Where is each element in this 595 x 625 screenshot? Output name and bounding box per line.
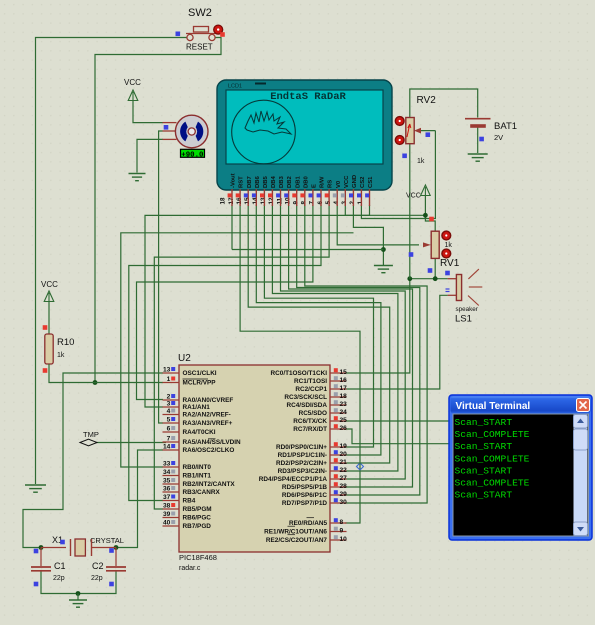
svg-text:RB3/CANRX: RB3/CANRX bbox=[183, 489, 221, 496]
wire LCD DB6 (pin15) to U2 RD6 bbox=[256, 205, 381, 455]
svg-text:RB5/PGM: RB5/PGM bbox=[183, 506, 212, 513]
LCD radar scribble trace bbox=[245, 111, 291, 134]
svg-text:U2: U2 bbox=[178, 353, 191, 364]
svg-text:VCC: VCC bbox=[406, 193, 421, 200]
svg-text:CS1: CS1 bbox=[368, 176, 374, 188]
svg-text:DB5: DB5 bbox=[263, 175, 269, 188]
svg-text:RC2/CCP1: RC2/CCP1 bbox=[295, 386, 327, 393]
svg-text:Scan_START: Scan_START bbox=[455, 490, 513, 501]
svg-text:Scan_COMPLETE: Scan_COMPLETE bbox=[455, 453, 530, 464]
svg-text:34: 34 bbox=[163, 469, 171, 476]
wire LCD CS1 (pin1) to U2 pin3 RA1 bbox=[145, 205, 370, 407]
svg-text:10: 10 bbox=[340, 536, 348, 543]
svg-text:21: 21 bbox=[340, 459, 348, 466]
wire RB0 net: fan line and column to U2 pin33 bbox=[121, 233, 354, 467]
capacitor C1 22p bbox=[31, 549, 66, 587]
svg-text:BAT1: BAT1 bbox=[494, 121, 517, 132]
svg-text:Scan_COMPLETE: Scan_COMPLETE bbox=[455, 478, 530, 489]
junction RV1 bottom / speaker rail bbox=[433, 276, 438, 281]
svg-text:RESET: RESET bbox=[186, 43, 213, 52]
svg-text:1k: 1k bbox=[417, 158, 425, 165]
svg-text:OSC1/CLKI: OSC1/CLKI bbox=[183, 370, 217, 377]
svg-text:C1: C1 bbox=[54, 561, 66, 571]
svg-text:MCLR/VPP: MCLR/VPP bbox=[183, 380, 217, 387]
junction capacitor ground rail bbox=[76, 591, 81, 596]
svg-text:6: 6 bbox=[167, 426, 171, 433]
svg-text:27: 27 bbox=[340, 475, 348, 482]
svg-text:RB2/INT2/CANTX: RB2/INT2/CANTX bbox=[183, 481, 236, 488]
svg-text:RA6/OSC2/CLKO: RA6/OSC2/CLKO bbox=[183, 447, 235, 454]
svg-text:VCC: VCC bbox=[41, 280, 58, 289]
svg-text:+90.0: +90.0 bbox=[181, 151, 204, 159]
svg-text:GND: GND bbox=[352, 175, 358, 188]
wire U2 pin15 RC0 to speaker rail bbox=[345, 279, 410, 373]
LCD pin stubs and numbers bbox=[220, 189, 370, 206]
svg-text:RB4: RB4 bbox=[183, 498, 196, 505]
wire LCD -Vout (pin18) drop bbox=[231, 205, 233, 250]
svg-text:13: 13 bbox=[260, 197, 267, 205]
svg-text:RD7/PSP7/P1D: RD7/PSP7/P1D bbox=[282, 500, 327, 507]
wire LCD VCC (pin4) to VCC junction above RV1 bbox=[345, 205, 425, 215]
junction speaker rail left bbox=[407, 276, 412, 281]
U2 left pins (numbers, squares, stubs, labels) bbox=[163, 367, 242, 531]
svg-text:C2: C2 bbox=[92, 561, 104, 571]
RV2 wiper arrowhead bbox=[414, 128, 421, 134]
svg-text:1k: 1k bbox=[445, 242, 453, 249]
svg-text:RE2/CS/C2OUT/AN7: RE2/CS/C2OUT/AN7 bbox=[266, 537, 328, 544]
virtual terminal text lines bbox=[455, 417, 530, 501]
wire servo signal to U2 pin5 RA3 (column x=158.6) bbox=[159, 131, 163, 423]
microcontroller U2 PIC18F458 bbox=[178, 353, 330, 572]
wire speaker rail bbox=[410, 278, 448, 280]
junction VCC/RV1 bbox=[423, 213, 428, 218]
RV1 wiper arrowhead bbox=[423, 242, 431, 247]
svg-text:20: 20 bbox=[340, 451, 348, 458]
wire OSC2: U2 pin14 to crystal right bbox=[117, 450, 163, 548]
svg-text:RA3/AN3/VREF+: RA3/AN3/VREF+ bbox=[183, 420, 233, 427]
svg-text:16: 16 bbox=[236, 197, 243, 205]
U2 right pins (numbers, squares, stubs, labels) bbox=[259, 368, 347, 544]
wire LCD DB7 (pin16) to U2 RD7 bbox=[248, 205, 390, 463]
svg-text:39: 39 bbox=[163, 511, 171, 518]
svg-text:RD1/PSP1/C1IN-: RD1/PSP1/C1IN- bbox=[278, 452, 327, 459]
svg-text:RE1/WR/C1OUT/AN6: RE1/WR/C1OUT/AN6 bbox=[264, 529, 327, 536]
junction crystal left node bbox=[39, 545, 44, 550]
wire R10 bottom to U2 pin1 MCLR bbox=[49, 374, 163, 383]
svg-text:E: E bbox=[312, 184, 318, 188]
svg-text:24: 24 bbox=[340, 409, 348, 416]
wire servo ground lead bbox=[137, 139, 163, 172]
switch SW2 (RESET push button) bbox=[176, 7, 225, 52]
svg-text:1k: 1k bbox=[57, 352, 65, 359]
wire LCD E (pin8) to U2 pin2 RA0 bbox=[137, 205, 313, 400]
svg-text:CS2: CS2 bbox=[360, 176, 366, 188]
svg-text:RB6/PGC: RB6/PGC bbox=[183, 515, 212, 522]
voltage probe marker on RST column bbox=[357, 463, 364, 470]
power VCC (RV1) bbox=[406, 185, 430, 200]
svg-text:SW2: SW2 bbox=[188, 7, 212, 19]
svg-text:RA1/AN1: RA1/AN1 bbox=[183, 404, 211, 411]
LCD display LCD1 (graphical 128x64) bbox=[217, 80, 392, 190]
svg-text:RC4/SDI/SDA: RC4/SDI/SDA bbox=[287, 402, 328, 409]
wire SW2 right terminal to MCLR column (x=95) bbox=[95, 38, 221, 383]
svg-text:TMP: TMP bbox=[83, 430, 99, 439]
svg-text:RV2: RV2 bbox=[417, 95, 437, 106]
svg-text:speaker: speaker bbox=[456, 306, 478, 313]
wire LCD DB2 (pin11) to U2 RD2 bbox=[289, 205, 413, 487]
ground (LCD) bbox=[374, 266, 393, 273]
wire SW2 left terminal to ground (x=35) bbox=[36, 38, 187, 485]
svg-text:RB0/INT0: RB0/INT0 bbox=[183, 464, 212, 471]
svg-text:18: 18 bbox=[340, 393, 348, 400]
svg-text:23: 23 bbox=[340, 401, 348, 408]
ground (BAT1) bbox=[468, 154, 488, 161]
wire BAT1 negative to ground bbox=[477, 128, 479, 154]
svg-text:1: 1 bbox=[167, 376, 171, 383]
ground (servo) bbox=[129, 174, 146, 181]
wire LCD RS (pin6) to U2 pin38 RB5 bbox=[154, 205, 329, 509]
svg-text:RA0/AN0/CVREF: RA0/AN0/CVREF bbox=[183, 397, 234, 404]
svg-text:2V: 2V bbox=[494, 133, 503, 142]
wire C2 top bbox=[115, 548, 117, 567]
svg-text:18: 18 bbox=[220, 197, 227, 205]
svg-text:7: 7 bbox=[167, 436, 171, 443]
svg-text:RC7/RX/DT: RC7/RX/DT bbox=[293, 426, 327, 433]
crystal X1 bbox=[52, 535, 124, 556]
svg-text:radar.c: radar.c bbox=[179, 565, 201, 572]
wire servo VCC feed bbox=[133, 101, 163, 123]
svg-text:38: 38 bbox=[163, 503, 171, 510]
svg-text:PIC18F468: PIC18F468 bbox=[179, 553, 217, 562]
svg-text:RV1: RV1 bbox=[440, 258, 460, 269]
svg-text:Virtual Terminal: Virtual Terminal bbox=[456, 401, 531, 412]
svg-text:36: 36 bbox=[163, 486, 171, 493]
svg-text:V0: V0 bbox=[336, 180, 342, 188]
svg-text:RD2/PSP2/C2IN+: RD2/PSP2/C2IN+ bbox=[276, 460, 327, 467]
svg-text:8: 8 bbox=[340, 519, 344, 526]
wire RV2 top to BAT1 positive bbox=[410, 89, 478, 118]
junction LCD ground node bbox=[381, 247, 386, 252]
capacitor C2 22p bbox=[91, 561, 126, 586]
svg-text:RS: RS bbox=[328, 180, 334, 188]
svg-text:37: 37 bbox=[163, 494, 171, 501]
wire LCD CS2 (pin2) to RV2 wiper column bbox=[361, 131, 435, 219]
svg-text:DB4: DB4 bbox=[271, 175, 277, 188]
svg-text:15: 15 bbox=[340, 369, 348, 376]
wire LCD DB1 (pin10) to U2 RD1 bbox=[297, 205, 420, 495]
potentiometer RV2 1k bbox=[395, 95, 436, 165]
svg-text:RD3/PSP3/C2IN-: RD3/PSP3/C2IN- bbox=[278, 468, 327, 475]
junction crystal right node bbox=[114, 545, 119, 550]
resistor R10 bbox=[43, 325, 75, 374]
svg-text:3: 3 bbox=[167, 401, 171, 408]
power VCC (servo) bbox=[124, 78, 141, 101]
LCD pin labels bbox=[231, 173, 375, 188]
svg-text:4: 4 bbox=[167, 408, 171, 415]
wire TMP input to U2 pin7 bbox=[96, 442, 166, 444]
svg-text:RB1/INT1: RB1/INT1 bbox=[183, 473, 212, 480]
svg-text:VCC: VCC bbox=[344, 175, 350, 188]
wire LCD -Vout rail joins ground node bbox=[232, 249, 383, 251]
svg-text:CRYSTAL: CRYSTAL bbox=[90, 536, 124, 545]
wire VCC to R10 top bbox=[48, 302, 50, 334]
ground (crystal caps) bbox=[77, 594, 79, 600]
svg-text:EndtaS RaDaR: EndtaS RaDaR bbox=[270, 91, 346, 103]
wire C1 top bbox=[40, 548, 42, 567]
wire RV2 bottom to speaker-rail column bbox=[409, 144, 411, 279]
svg-text:16: 16 bbox=[340, 377, 348, 384]
svg-text:40: 40 bbox=[163, 520, 171, 527]
svg-text:RD0/PSP0/C1IN+: RD0/PSP0/C1IN+ bbox=[276, 444, 327, 451]
svg-text:-Vout: -Vout bbox=[231, 173, 237, 188]
wire LCD DB0 (pin9) to U2 RD0 bbox=[305, 205, 427, 503]
svg-text:R10: R10 bbox=[57, 337, 74, 348]
svg-text:RA2/AN2/VREF-: RA2/AN2/VREF- bbox=[183, 412, 231, 419]
wire crystal right plate to node bbox=[92, 547, 116, 549]
svg-text:VCC: VCC bbox=[124, 78, 141, 87]
svg-text:25: 25 bbox=[340, 417, 348, 424]
svg-text:DB2: DB2 bbox=[287, 175, 293, 188]
svg-text:30: 30 bbox=[340, 499, 348, 506]
potentiometer RV1 1k bbox=[409, 217, 460, 276]
wire OSC1: U2 pin13 to crystal left bbox=[23, 373, 163, 548]
virtual terminal scrollbar bbox=[574, 415, 588, 536]
svg-text:RD6/PSP6/P1C: RD6/PSP6/P1C bbox=[282, 492, 327, 499]
input terminal TMP bbox=[80, 430, 99, 446]
svg-text:26: 26 bbox=[340, 425, 348, 432]
wire U2 pin17 RC2 to speaker lower terminal bbox=[345, 295, 448, 389]
wire LCD DB5 (pin14) to U2 RD5 bbox=[264, 205, 373, 447]
junction MCLR net bbox=[93, 380, 98, 385]
power VCC (R10 pull-up) bbox=[41, 280, 58, 302]
wire LCD DB3 (pin12) to U2 RD3 bbox=[281, 205, 406, 479]
wire crystal left plate to node bbox=[41, 547, 66, 549]
svg-text:RC5/SDO: RC5/SDO bbox=[299, 410, 327, 417]
svg-text:RC6/TX/CK: RC6/TX/CK bbox=[293, 418, 327, 425]
svg-text:DB3: DB3 bbox=[279, 175, 285, 188]
svg-text:LS1: LS1 bbox=[455, 314, 472, 325]
svg-text:35: 35 bbox=[163, 478, 171, 485]
svg-text:28: 28 bbox=[340, 483, 348, 490]
svg-text:RA5/AN4/SS/LVDIN: RA5/AN4/SS/LVDIN bbox=[183, 439, 242, 446]
svg-text:9: 9 bbox=[340, 528, 344, 535]
motor servo M1 bbox=[163, 115, 209, 148]
svg-text:22p: 22p bbox=[53, 575, 65, 582]
svg-text:RD5/PSP5/P1B: RD5/PSP5/P1B bbox=[282, 484, 327, 491]
svg-text:LCD1: LCD1 bbox=[228, 84, 242, 90]
svg-text:DB0: DB0 bbox=[303, 175, 309, 188]
wire U2 pin26 RX to virtual terminal bbox=[345, 429, 450, 444]
svg-text:5: 5 bbox=[167, 417, 171, 424]
wire LCD RST (pin17) to U2 pin8 RE0 bbox=[240, 205, 360, 523]
svg-text:RST: RST bbox=[239, 176, 245, 188]
ground (SW2 net) bbox=[35, 483, 37, 485]
wire LCD GND (pin3) to ground node bbox=[353, 205, 383, 265]
wire RV1 bottom to speaker rail bbox=[434, 258, 436, 278]
wire VCC to RV1 top bbox=[425, 196, 435, 231]
svg-text:33: 33 bbox=[163, 461, 171, 468]
wire LCD V0 (pin5) to RV1 wiper bbox=[337, 205, 419, 245]
servo angle display +90.0 bbox=[181, 149, 205, 159]
wire U2 pin25 TX to virtual terminal bbox=[345, 420, 450, 422]
svg-text:Scan_START: Scan_START bbox=[455, 441, 513, 452]
svg-text:22: 22 bbox=[340, 467, 348, 474]
svg-text:22p: 22p bbox=[91, 575, 103, 582]
battery BAT1 2V bbox=[465, 119, 517, 142]
U2 overline marks (MCLR, SS, RD, WR, CS) bbox=[183, 379, 315, 535]
svg-text:RC0/T1OSO/T1CKI: RC0/T1OSO/T1CKI bbox=[271, 370, 328, 377]
wire C1 bottom to ground rail bbox=[41, 572, 78, 594]
svg-text:DB7: DB7 bbox=[247, 175, 253, 188]
wire LCD R/W (pin7) to U2 pin37 RB4 bbox=[129, 205, 321, 501]
svg-text:Scan_COMPLETE: Scan_COMPLETE bbox=[455, 429, 530, 440]
LCD radar circle bbox=[232, 100, 296, 164]
svg-text:RC1/T1OSI: RC1/T1OSI bbox=[294, 378, 327, 385]
svg-text:13: 13 bbox=[163, 367, 171, 374]
svg-text:Scan_START: Scan_START bbox=[455, 465, 513, 476]
svg-text:RB7/PGD: RB7/PGD bbox=[183, 523, 212, 530]
svg-text:RA4/T0CKI: RA4/T0CKI bbox=[183, 429, 216, 436]
svg-text:RD4/PSP4/ECCP1/P1A: RD4/PSP4/ECCP1/P1A bbox=[259, 476, 328, 483]
svg-text:DB1: DB1 bbox=[295, 175, 301, 188]
speaker LS1 bbox=[446, 269, 483, 324]
svg-text:14: 14 bbox=[163, 444, 171, 451]
wire C2 bottom to ground rail bbox=[78, 572, 116, 594]
svg-text:DB6: DB6 bbox=[255, 175, 261, 188]
wire RV2 wiper lead bbox=[418, 130, 435, 132]
svg-text:19: 19 bbox=[340, 443, 348, 450]
svg-text:RC3/SCK/SCL: RC3/SCK/SCL bbox=[284, 394, 327, 401]
svg-text:2: 2 bbox=[349, 201, 356, 205]
virtual terminal window bbox=[449, 395, 592, 540]
svg-text:Scan_START: Scan_START bbox=[455, 417, 513, 428]
wire LCD DB4 (pin13) to U2 RD4 bbox=[272, 205, 398, 471]
svg-text:R/W: R/W bbox=[320, 176, 326, 188]
svg-text:2: 2 bbox=[167, 394, 171, 401]
svg-text:17: 17 bbox=[340, 385, 348, 392]
svg-text:29: 29 bbox=[340, 491, 348, 498]
